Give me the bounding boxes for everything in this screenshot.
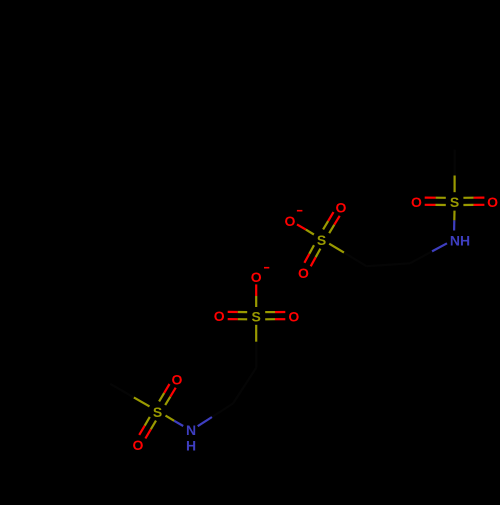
bond S2=O5 double <box>463 204 473 206</box>
bond S3-N2 <box>166 416 175 421</box>
svg-text:O: O <box>288 308 299 324</box>
bond S1=O2 double <box>329 225 334 234</box>
bond S3=O9 double <box>165 397 170 405</box>
bond S2-N1 <box>453 211 455 221</box>
bond N1-C2 <box>432 243 447 251</box>
bond S4-C4 <box>255 325 257 342</box>
svg-text:S: S <box>317 232 326 248</box>
svg-text:O: O <box>285 213 296 229</box>
bond S3=O10 double <box>145 417 150 426</box>
bond S1-C1 <box>329 244 344 253</box>
bond C1-C2 <box>367 263 411 266</box>
bond S1=O3 double <box>309 245 314 254</box>
O6 charge minus <box>264 267 269 269</box>
bond S4=O8 double <box>265 318 275 320</box>
svg-text:O: O <box>133 437 144 453</box>
bond O6-S4 single <box>255 284 257 296</box>
svg-text:O: O <box>172 371 183 387</box>
svg-text:O: O <box>336 200 347 216</box>
svg-text:H: H <box>186 438 196 454</box>
svg-text:NH: NH <box>450 232 470 248</box>
svg-text:O: O <box>214 308 225 324</box>
svg-text:O: O <box>487 194 498 210</box>
bond S3-C6 methyl <box>134 397 150 406</box>
svg-text:S: S <box>153 404 162 420</box>
O1 charge minus <box>297 210 303 212</box>
bond S4=O7 double <box>238 311 248 313</box>
bond N2-C5 <box>198 417 212 426</box>
bond S2-C3 methyl <box>454 176 456 193</box>
svg-text:O: O <box>251 269 262 285</box>
svg-text:O: O <box>411 194 422 210</box>
svg-text:O: O <box>298 265 309 281</box>
svg-text:S: S <box>450 194 459 210</box>
bond C4-C5 <box>233 368 256 404</box>
bond O1-S1 single <box>297 224 306 229</box>
svg-text:N: N <box>186 422 196 438</box>
svg-text:S: S <box>252 309 261 325</box>
bond S2=O4 double <box>436 197 446 199</box>
